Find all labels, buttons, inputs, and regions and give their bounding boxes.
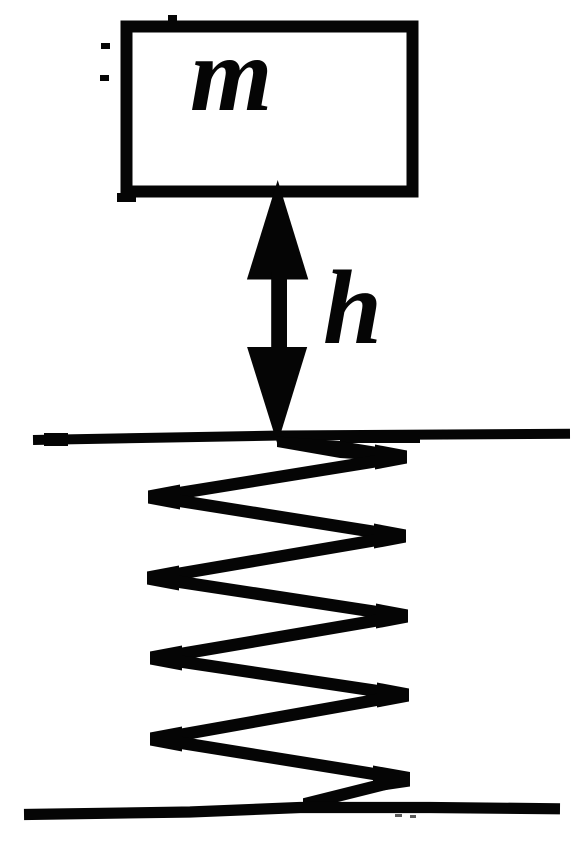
bottom ground line: [24, 808, 560, 815]
scan speck left of box A: [101, 43, 110, 49]
spring coil segment 6: [157, 652, 404, 701]
spring tip R2: [374, 524, 406, 549]
spring coil segment 9: [303, 773, 405, 811]
spring tip L4: [150, 727, 182, 752]
spring tip R3: [376, 604, 408, 629]
top line left blob: [44, 433, 68, 446]
spring start segment from line: [277, 437, 402, 463]
spring tip L2: [147, 566, 179, 591]
mass box: [127, 27, 413, 192]
scan blob at box bottom-left corner: [117, 193, 136, 202]
spring tip L3: [150, 646, 182, 671]
spring tip R4: [377, 683, 409, 708]
top line thickening at spring junction: [340, 431, 420, 443]
faint specks below bottom line: [395, 814, 402, 817]
spring coil segment 4: [154, 572, 403, 622]
arrow shaft: [271, 272, 287, 352]
spring tip L1: [148, 485, 180, 510]
spring tip R1: [375, 445, 407, 470]
spring coil segment 5: [157, 610, 403, 664]
svg-text:h: h: [323, 249, 382, 366]
spring coil segment 2: [155, 491, 400, 542]
top ground line: [33, 434, 570, 440]
arrow lower head: [247, 347, 307, 444]
arrow upper head: [247, 180, 308, 280]
svg-text:m: m: [190, 16, 272, 133]
scan speck above box top edge: [168, 15, 177, 21]
spring tip R5: [373, 766, 410, 793]
spring coil segment 7: [157, 689, 404, 745]
spring coil segment 3: [154, 530, 400, 584]
spring coil segment 1: [155, 451, 402, 503]
scan speck left of box B: [100, 75, 109, 81]
spring coil segment 8: [157, 733, 405, 785]
